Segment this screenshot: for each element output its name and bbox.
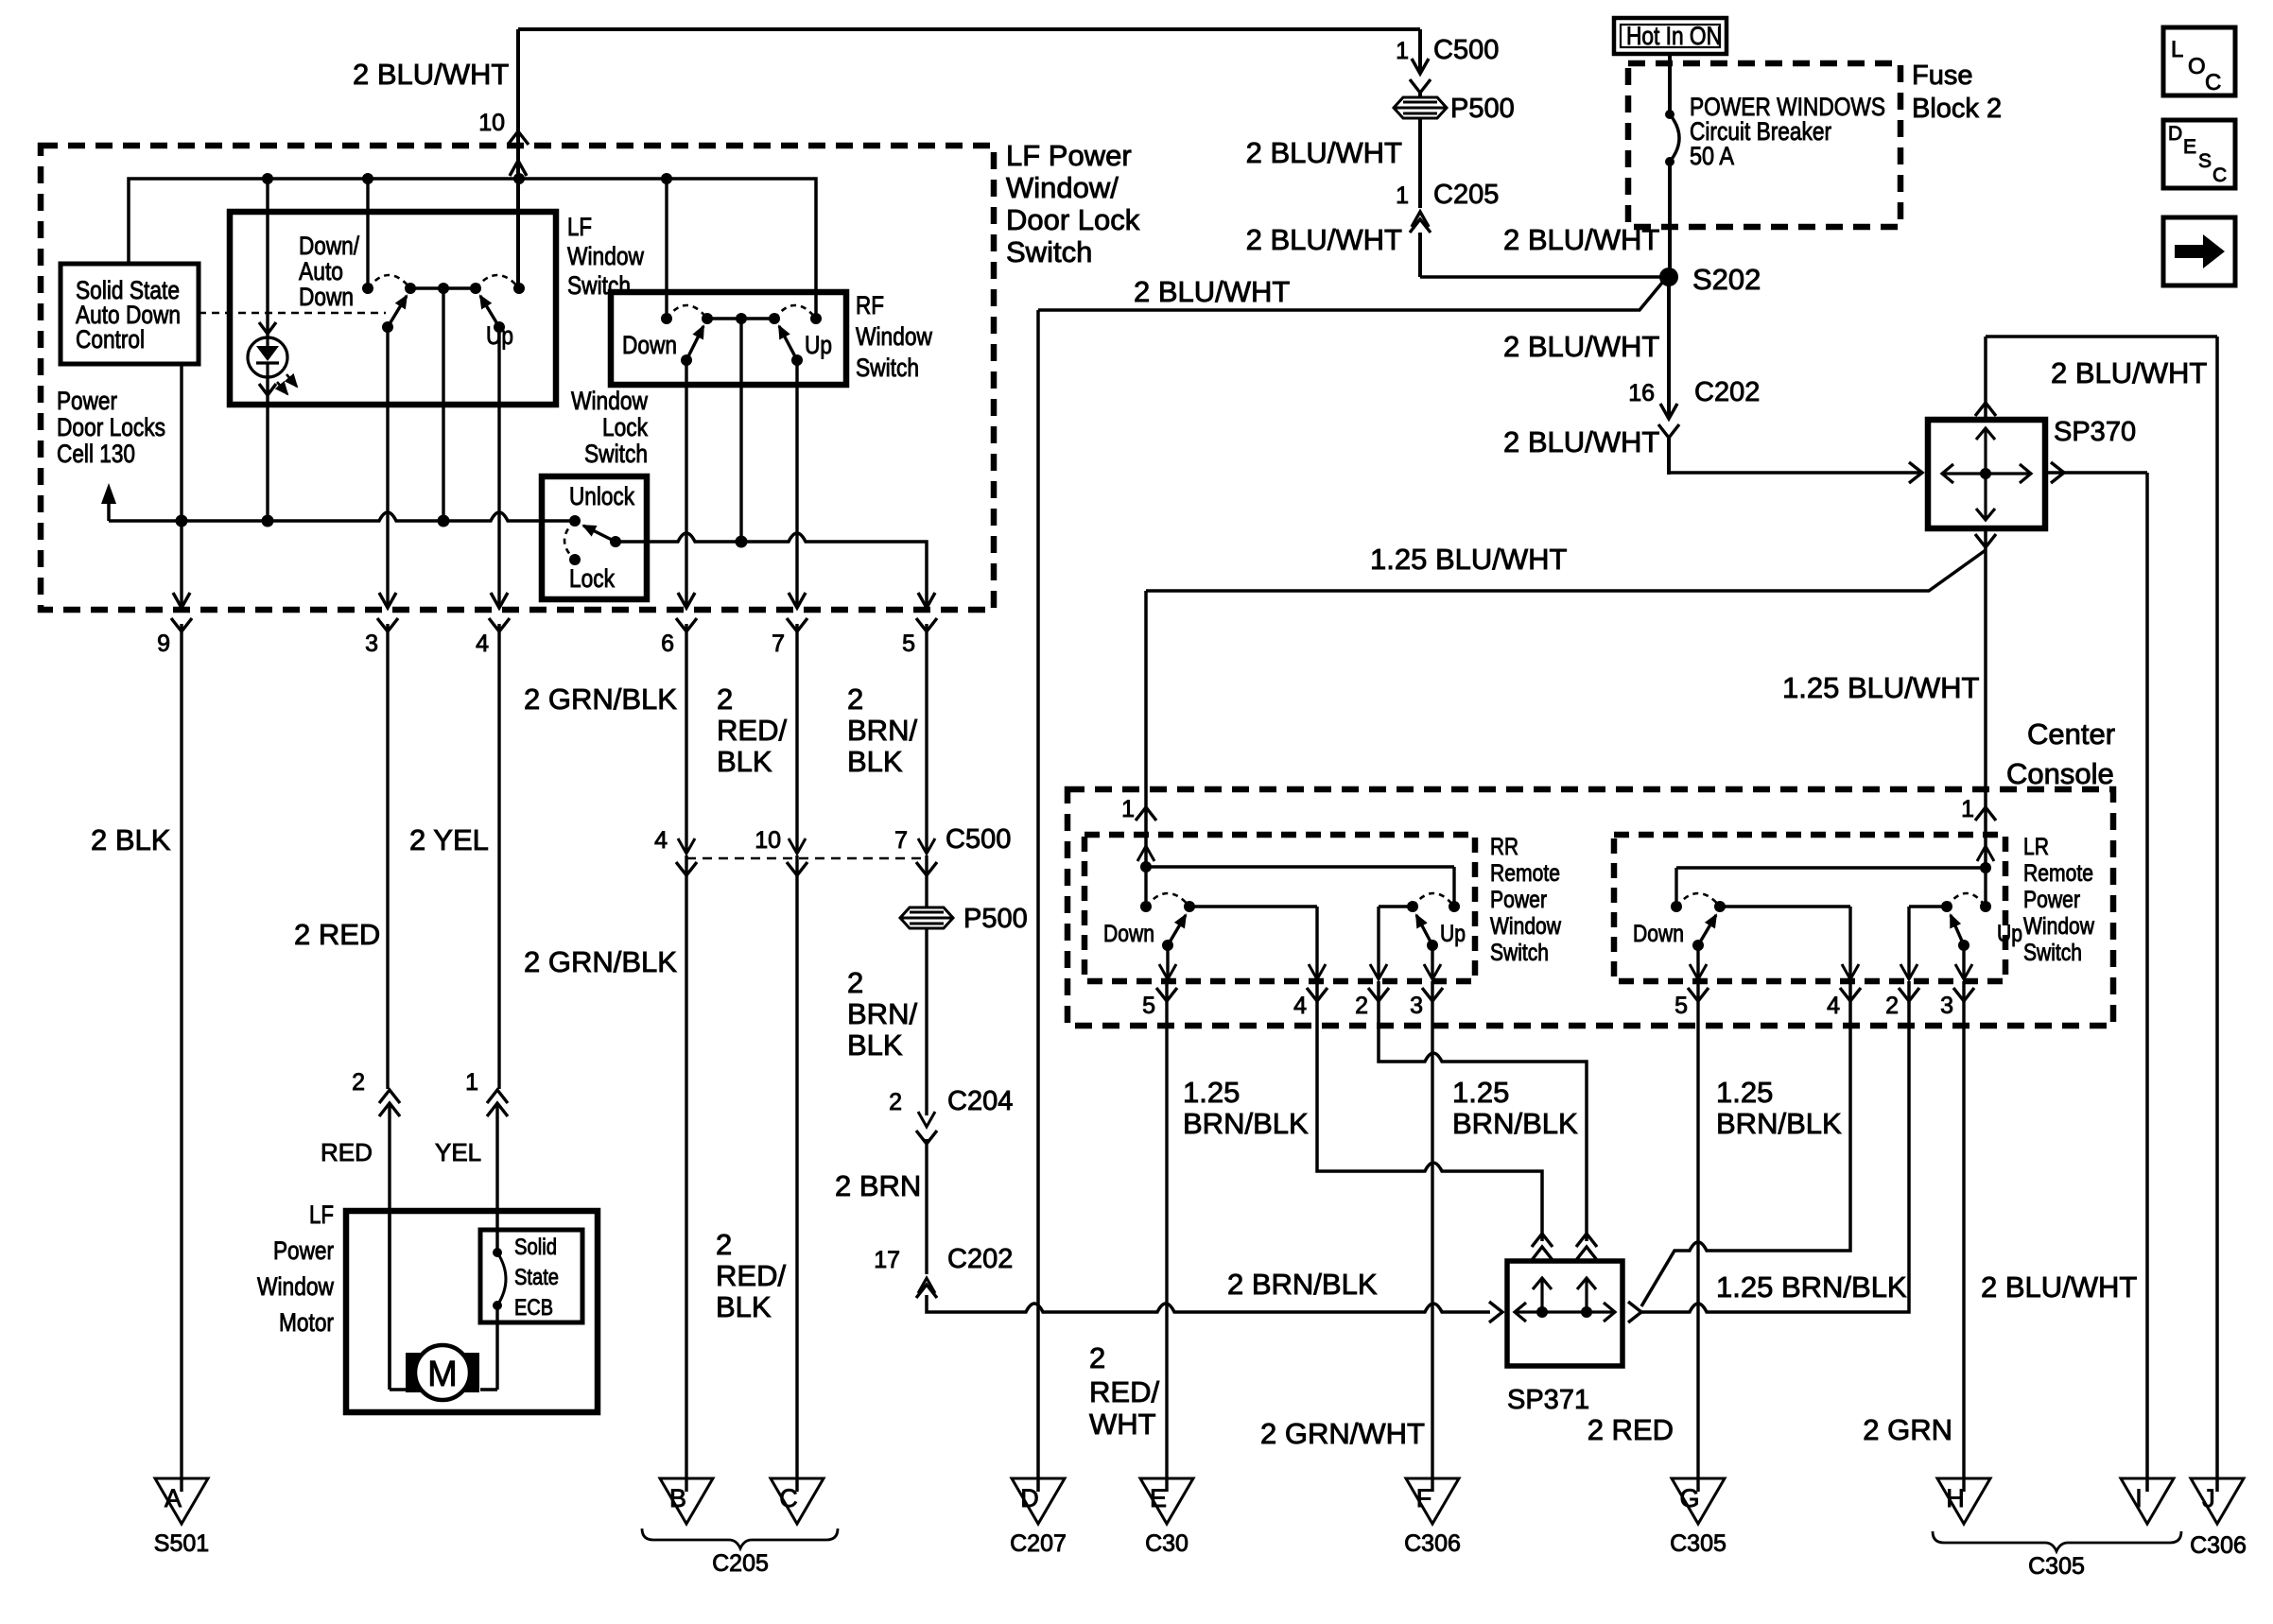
svg-text:Window: Window [567, 242, 644, 270]
svg-text:L: L [2171, 37, 2183, 62]
svg-text:Hot In ON: Hot In ON [1626, 22, 1722, 50]
svg-text:C: C [2205, 70, 2221, 95]
LR dashed arc down [1676, 893, 1720, 907]
LED light arrow [277, 382, 287, 394]
svg-text:Power: Power [273, 1236, 334, 1265]
svg-text:1: 1 [1396, 182, 1409, 209]
Lock contact [569, 554, 581, 565]
svg-text:RR: RR [1490, 834, 1518, 860]
RF switch arm left [686, 326, 703, 360]
svg-text:D: D [2168, 123, 2182, 145]
svg-text:1.25: 1.25 [1183, 1076, 1240, 1109]
svg-text:4: 4 [1827, 993, 1840, 1019]
wire 2 BRN/BLK pin5 vertical [925, 624, 928, 852]
svg-text:Unlock: Unlock [569, 482, 634, 510]
node [661, 173, 672, 184]
top bus wire 2 BLU/WHT [518, 27, 1420, 31]
svg-text:4: 4 [476, 631, 489, 657]
LR arm contact right [1941, 901, 1952, 912]
wire pin10 vertical to LF switch Up contact [516, 29, 520, 288]
svg-text:Down: Down [1103, 921, 1154, 947]
LR pin 2 [1907, 907, 1910, 977]
LOC box [2163, 27, 2235, 95]
lock switch output wire to pin 5 [616, 533, 927, 608]
splice S202 [1659, 268, 1678, 286]
svg-text:1.25: 1.25 [1452, 1076, 1509, 1109]
LF switch arm left [388, 296, 407, 327]
wire J C306 vertical [2215, 337, 2219, 1492]
svg-text:C306: C306 [2190, 1532, 2247, 1559]
svg-text:5: 5 [902, 631, 915, 657]
svg-text:2 BLU/WHT: 2 BLU/WHT [1503, 425, 1659, 458]
svg-text:Down: Down [299, 283, 354, 311]
svg-text:1: 1 [1396, 38, 1409, 64]
Solid State ECB box [480, 1230, 582, 1322]
internal top bus [129, 179, 816, 319]
svg-text:J: J [2202, 1484, 2215, 1512]
arrow box [2163, 217, 2235, 285]
svg-text:2 GRN/BLK: 2 GRN/BLK [524, 682, 677, 716]
Unlock contact [569, 515, 581, 527]
Center Console dashed box [1067, 789, 2113, 1026]
svg-text:SP370: SP370 [2054, 417, 2136, 447]
svg-text:RF: RF [856, 291, 884, 320]
motor M [388, 1211, 390, 1390]
dashed arc [476, 275, 519, 288]
svg-text:LR: LR [2023, 834, 2049, 860]
wire RR pin5 to E [1165, 981, 1168, 1492]
wire YEL to motor [495, 1104, 498, 1253]
LF Down contact [362, 283, 373, 294]
Window Lock Switch box [542, 476, 647, 599]
svg-text:50 A: 50 A [1690, 142, 1734, 170]
svg-text:BRN/: BRN/ [847, 714, 917, 747]
wire LR pin5 to G [1696, 981, 1699, 1492]
svg-text:10: 10 [755, 827, 781, 854]
svg-text:M: M [427, 1355, 458, 1394]
svg-text:9: 9 [157, 631, 170, 657]
LR wire to Down contact [1676, 866, 1986, 869]
svg-text:Lock: Lock [569, 564, 615, 593]
svg-text:BLK: BLK [716, 1290, 772, 1323]
LR dashed arc up [1947, 893, 1986, 907]
svg-text:Window: Window [1490, 913, 1562, 940]
svg-text:Down: Down [1633, 921, 1684, 947]
svg-text:1.25 BLU/WHT: 1.25 BLU/WHT [1782, 671, 1980, 704]
node [513, 173, 525, 184]
svg-text:2: 2 [889, 1089, 902, 1115]
svg-text:3: 3 [1940, 993, 1953, 1019]
svg-text:LF: LF [567, 213, 592, 241]
svg-text:1: 1 [1961, 796, 1974, 822]
lock switch arm [583, 526, 616, 542]
svg-text:Switch: Switch [856, 354, 919, 382]
LF switch arm right [480, 296, 499, 327]
svg-text:C500: C500 [946, 824, 1011, 855]
dashed link Solid State to switch arm [199, 312, 386, 315]
wire I vertical [2145, 473, 2149, 1492]
RR pin 2 [1377, 907, 1379, 977]
svg-text:BRN/: BRN/ [847, 997, 917, 1030]
RR switch arm left [1168, 915, 1186, 945]
svg-text:2: 2 [352, 1069, 365, 1096]
svg-text:10: 10 [478, 110, 505, 136]
wire RED to motor [388, 1104, 390, 1390]
svg-text:1: 1 [1121, 796, 1135, 822]
svg-text:1.25 BLU/WHT: 1.25 BLU/WHT [1370, 543, 1568, 576]
Hot In ON box [1614, 18, 1726, 54]
splice SP371 [1507, 1261, 1622, 1366]
svg-text:BRN/BLK: BRN/BLK [1452, 1107, 1578, 1140]
svg-text:Window/: Window/ [1006, 171, 1119, 204]
svg-text:Cell 130: Cell 130 [57, 440, 135, 468]
svg-text:P500: P500 [1450, 94, 1515, 124]
svg-text:1.25 BRN/BLK: 1.25 BRN/BLK [1716, 1270, 1907, 1304]
connector triangle F [1406, 1478, 1459, 1524]
svg-text:Window: Window [571, 387, 648, 415]
dashed arc [774, 305, 816, 319]
svg-text:2: 2 [717, 682, 733, 716]
LR Down contact [1671, 901, 1682, 912]
svg-text:A: A [165, 1484, 182, 1512]
svg-text:C205: C205 [712, 1550, 769, 1577]
svg-text:Up: Up [1997, 921, 2022, 947]
wire SP370 bottom to LR pin1 [1984, 528, 1987, 868]
svg-text:Remote: Remote [2023, 860, 2093, 887]
svg-text:WHT: WHT [1089, 1408, 1156, 1441]
svg-text:SP371: SP371 [1507, 1385, 1589, 1415]
svg-text:C205: C205 [1433, 180, 1499, 210]
node [176, 515, 188, 527]
LF Window Switch box [230, 212, 556, 405]
svg-text:Auto: Auto [299, 257, 343, 285]
svg-text:LF: LF [309, 1201, 334, 1229]
svg-text:C500: C500 [1433, 35, 1499, 65]
svg-text:C305: C305 [2028, 1553, 2085, 1580]
wire C202 to SP370 [1667, 437, 1671, 475]
svg-text:2 BRN/BLK: 2 BRN/BLK [1227, 1268, 1378, 1301]
svg-text:17: 17 [874, 1247, 900, 1273]
RR Down contact [1140, 901, 1152, 912]
svg-text:Down/: Down/ [299, 232, 359, 260]
brace C205 [642, 1529, 838, 1548]
svg-text:Switch: Switch [1006, 235, 1092, 268]
LF Power Window Motor box [346, 1211, 598, 1412]
svg-text:S501: S501 [154, 1530, 209, 1557]
svg-text:C202: C202 [1694, 377, 1760, 407]
RR switch arm right [1416, 915, 1432, 945]
svg-text:2: 2 [1355, 993, 1368, 1019]
svg-text:O: O [2188, 54, 2206, 79]
LR junction node [1980, 862, 1991, 873]
svg-text:RED/: RED/ [1089, 1375, 1159, 1408]
svg-text:C202: C202 [947, 1244, 1013, 1274]
svg-text:C: C [2212, 164, 2227, 186]
connector triangle G [1672, 1478, 1725, 1524]
svg-text:ECB: ECB [514, 1295, 553, 1321]
connector triangle D [1012, 1478, 1065, 1524]
svg-text:Center: Center [2027, 717, 2115, 751]
RF switch arm right [779, 326, 797, 360]
svg-text:Remote: Remote [1490, 860, 1560, 887]
wire S202 branch to LF switch (2 BLU/WHT) [1038, 283, 1662, 310]
LR switch arm right [1951, 915, 1964, 945]
svg-text:H: H [1946, 1484, 1965, 1512]
LR bar to pin 4 [1720, 905, 1850, 907]
node [262, 173, 273, 184]
svg-text:2 BLU/WHT: 2 BLU/WHT [1503, 330, 1659, 363]
wire D C207 vertical [1036, 310, 1040, 1492]
in-line connector P500 lower [900, 907, 953, 928]
svg-text:1.25: 1.25 [1716, 1076, 1773, 1109]
wire 2 BRN/BLK C202-17 to SP371 [927, 1295, 1490, 1312]
svg-text:2 GRN/BLK: 2 GRN/BLK [524, 945, 677, 978]
in-line connector P500 [1394, 97, 1447, 118]
svg-text:F: F [1416, 1484, 1432, 1512]
node [736, 536, 748, 548]
LR Up contact [1980, 901, 1991, 912]
svg-text:4: 4 [654, 827, 668, 854]
wire LR pin2 to SP371 [1640, 981, 1909, 1312]
svg-text:1: 1 [465, 1069, 478, 1096]
dashed arc [667, 305, 707, 319]
svg-text:2: 2 [847, 682, 863, 716]
dashed arc [368, 275, 410, 288]
svg-text:Switch: Switch [2023, 940, 2082, 966]
svg-text:BLK: BLK [847, 1028, 903, 1062]
RR junction node [1140, 861, 1152, 872]
LED light arrow [286, 374, 297, 387]
svg-text:2: 2 [847, 966, 863, 999]
svg-text:5: 5 [1142, 993, 1155, 1019]
RR arm contact left [1184, 901, 1195, 912]
svg-text:Up: Up [1440, 921, 1466, 947]
svg-text:Window: Window [2023, 913, 2095, 940]
wire LR pin3 to H [1962, 981, 1965, 1492]
RR wire to Up contact [1146, 865, 1454, 868]
svg-text:C30: C30 [1145, 1530, 1189, 1557]
node [438, 515, 450, 527]
connector triangle E [1140, 1478, 1193, 1524]
svg-text:BRN/BLK: BRN/BLK [1183, 1107, 1309, 1140]
svg-text:2 BLU/WHT: 2 BLU/WHT [2051, 356, 2207, 389]
svg-text:BRN/BLK: BRN/BLK [1716, 1107, 1842, 1140]
svg-text:State: State [514, 1265, 559, 1290]
svg-text:D: D [1020, 1484, 1039, 1512]
svg-text:Motor: Motor [279, 1308, 334, 1337]
wire C500/P500/C205 vertical [1418, 29, 1422, 74]
svg-text:E: E [2183, 136, 2196, 158]
wire SS control down [180, 364, 182, 515]
svg-text:Fuse: Fuse [1912, 60, 1972, 91]
RR arm contact right [1407, 901, 1418, 912]
svg-text:BLK: BLK [717, 745, 772, 778]
svg-text:Power: Power [1490, 887, 1547, 913]
LR Remote Power Window Switch dashed box [1614, 835, 2005, 981]
svg-text:Door Locks: Door Locks [57, 413, 165, 441]
svg-text:B: B [669, 1484, 686, 1512]
svg-text:2 BLU/WHT: 2 BLU/WHT [1134, 275, 1290, 308]
svg-text:BLK: BLK [847, 745, 903, 778]
wire pin 3 [386, 327, 389, 608]
wire C vertical [795, 855, 798, 1492]
wire into circuit breaker [1668, 54, 1672, 114]
svg-text:2 BLU/WHT: 2 BLU/WHT [1246, 136, 1402, 169]
svg-text:5: 5 [1674, 993, 1688, 1019]
node [362, 173, 373, 184]
svg-text:Switch: Switch [1490, 940, 1549, 966]
svg-text:RED/: RED/ [716, 1259, 786, 1292]
svg-text:2: 2 [716, 1228, 732, 1261]
svg-text:2 BLU/WHT: 2 BLU/WHT [1246, 223, 1402, 256]
wire pin 7 [795, 360, 798, 608]
wire LR pin4 to SP371 [1641, 981, 1850, 1306]
Fuse Block 2 dashed box [1628, 63, 1900, 227]
connector triangle B [660, 1478, 713, 1524]
wire S202 down to C202 [1667, 277, 1671, 419]
dashed C500 connector line [686, 857, 927, 860]
svg-text:7: 7 [894, 827, 908, 854]
svg-text:LF Power: LF Power [1006, 139, 1132, 172]
wire C205 to S202 [1420, 275, 1669, 279]
svg-text:RED/: RED/ [717, 714, 787, 747]
wire RR pin1 vertical [1144, 591, 1148, 867]
svg-text:3: 3 [1410, 993, 1423, 1019]
LF Power Window/Door Lock Switch dashed box [41, 146, 994, 610]
DESC box [2163, 120, 2235, 188]
svg-text:Up: Up [805, 331, 832, 359]
svg-text:2 BLU/WHT: 2 BLU/WHT [1981, 1270, 2137, 1304]
wire SP370 right to I [2045, 471, 2147, 475]
svg-text:Console: Console [2006, 757, 2114, 790]
dashed arc lock switch [564, 521, 575, 560]
wire A S501 vertical [180, 624, 182, 1492]
svg-text:Switch: Switch [567, 271, 631, 300]
RR dashed arc up [1413, 893, 1454, 907]
svg-text:Control: Control [76, 325, 145, 354]
RF Up contact [810, 313, 822, 324]
RR dashed arc down [1146, 893, 1189, 907]
svg-text:C207: C207 [1010, 1530, 1067, 1557]
svg-text:2 RED: 2 RED [1588, 1413, 1674, 1446]
svg-text:2: 2 [1885, 993, 1899, 1019]
RR Up contact [1449, 901, 1460, 912]
svg-text:2 YEL: 2 YEL [409, 823, 489, 856]
wire RR pin3 to F [1431, 981, 1433, 1492]
Solid State Auto Down Control box [61, 264, 199, 364]
svg-text:Switch: Switch [584, 440, 648, 468]
LR switch arm left [1698, 915, 1716, 945]
svg-text:2 BLU/WHT: 2 BLU/WHT [353, 58, 509, 91]
connector triangle C [771, 1478, 824, 1524]
wire to SP370 left [1669, 471, 1919, 475]
svg-text:P500: P500 [963, 904, 1028, 934]
wire RR pin4 to SP371 [1317, 981, 1542, 1241]
connector triangle A [155, 1478, 208, 1524]
svg-text:RED: RED [321, 1138, 373, 1166]
LF Up contact [513, 283, 525, 294]
svg-text:C305: C305 [1670, 1530, 1726, 1557]
svg-text:Door Lock: Door Lock [1006, 203, 1140, 236]
svg-text:2 GRN: 2 GRN [1863, 1413, 1952, 1446]
svg-text:2 BLK: 2 BLK [91, 823, 171, 856]
svg-text:Window: Window [856, 322, 932, 351]
LED indicator lamp [266, 179, 269, 337]
wire pin 6 [685, 360, 687, 608]
LR arm contact left [1714, 901, 1726, 912]
svg-text:Lock: Lock [602, 413, 648, 441]
connector triangle J [2191, 1478, 2244, 1524]
svg-text:Window: Window [257, 1272, 334, 1301]
wire top loop to J [1986, 335, 2217, 338]
svg-text:Down: Down [622, 331, 677, 359]
svg-text:2 GRN/WHT: 2 GRN/WHT [1260, 1417, 1425, 1450]
svg-text:I: I [2135, 1484, 2143, 1512]
svg-text:G: G [1679, 1484, 1699, 1512]
svg-text:2 RED: 2 RED [294, 918, 380, 951]
wire B vertical [685, 855, 687, 1492]
svg-text:C: C [779, 1484, 798, 1512]
svg-text:Solid: Solid [514, 1235, 557, 1260]
svg-text:C204: C204 [947, 1086, 1013, 1116]
lock switch pivot [610, 536, 621, 547]
svg-text:YEL: YEL [435, 1138, 481, 1166]
svg-text:6: 6 [661, 631, 674, 657]
svg-text:Power: Power [57, 387, 117, 415]
svg-text:7: 7 [772, 631, 785, 657]
RR bar to pin 4 [1189, 905, 1317, 907]
svg-text:S202: S202 [1692, 263, 1761, 296]
connector triangle I [2121, 1478, 2174, 1524]
connector triangle H [1937, 1478, 1990, 1524]
wire SP370 top to 2 BLU/WHT loop [1984, 337, 1987, 420]
RF Down contact [661, 313, 672, 324]
circuit breaker POWER WINDOWS 50 A [1665, 110, 1674, 119]
svg-text:S: S [2198, 150, 2212, 172]
splice SP370 [1928, 420, 2045, 528]
svg-text:2 BRN: 2 BRN [835, 1169, 921, 1202]
svg-text:Block 2: Block 2 [1912, 94, 2002, 124]
svg-text:C306: C306 [1404, 1530, 1461, 1557]
wire pin 4 [497, 327, 500, 608]
wire RR pin2 to SP371 [1379, 981, 1587, 1241]
svg-text:E: E [1150, 1484, 1167, 1512]
svg-text:16: 16 [1628, 380, 1655, 406]
power door locks feed wire [107, 504, 111, 521]
svg-text:4: 4 [1293, 993, 1307, 1019]
svg-text:Power: Power [2023, 887, 2080, 913]
brace C305 right [1933, 1531, 2181, 1551]
svg-text:3: 3 [365, 631, 378, 657]
wire breaker to S202 [1668, 162, 1672, 277]
RR Remote Power Window Switch dashed box [1084, 835, 1475, 981]
node [262, 515, 274, 527]
svg-text:2: 2 [1089, 1341, 1105, 1374]
RF Window Switch box [611, 292, 846, 385]
